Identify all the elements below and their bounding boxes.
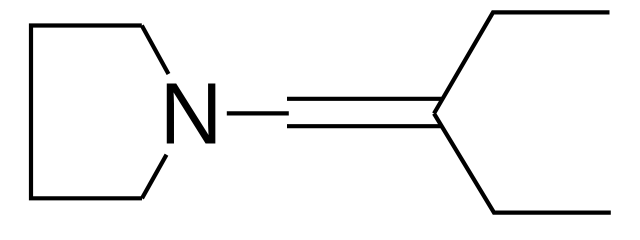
- wire: bond C2 to upper ethyl (CH2-CH3): [434, 12, 610, 113]
- svg-text:N: N: [160, 66, 223, 163]
- wire: bond C2 to lower ethyl (CH2-CH3): [434, 114, 611, 213]
- wire: single bond N-CH: [227, 111, 289, 115]
- wire: double bond upper line: [287, 97, 443, 101]
- wire: ring bond C3 to N (upper right diagonal): [142, 26, 169, 75]
- wire: ring bond C5' to N (lower right diagonal): [142, 155, 167, 199]
- wire: pyrrolidine ring left edge (C4-C5): [31, 26, 142, 199]
- wire: double bond lower line: [287, 124, 442, 128]
